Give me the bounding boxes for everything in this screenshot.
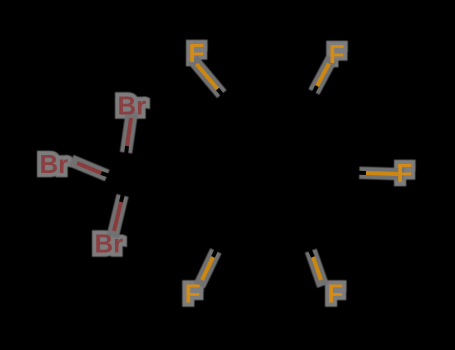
halo casing of bond C-F2 <box>317 64 329 87</box>
bond C-Br2 colored half <box>77 163 101 173</box>
svg-text:F: F <box>189 40 205 68</box>
bond C-Br2 black half (skeleton side) <box>101 173 125 181</box>
bond C-F3 black half (skeleton side) <box>340 172 366 173</box>
halo casing of bond C-Br3 <box>114 202 121 232</box>
bond C-Br1 black half (skeleton side) <box>124 146 127 175</box>
svg-text:Br: Br <box>118 92 147 120</box>
bond C-Br3 colored half <box>114 202 121 231</box>
bond C-F2 colored half <box>317 64 329 87</box>
bond C-Br1 colored half <box>127 118 131 146</box>
svg-text:F: F <box>329 41 345 69</box>
svg-text:Br: Br <box>95 231 124 259</box>
bond C-F1 colored half <box>197 64 218 89</box>
bond C-F4 colored half <box>313 257 321 280</box>
svg-text:F: F <box>328 281 344 309</box>
bond C-F5 colored half <box>202 257 213 280</box>
svg-text:F: F <box>185 281 201 309</box>
bond C-F4 black half (skeleton side) <box>303 235 313 257</box>
halo casing of bond C-F5 <box>202 257 213 281</box>
halo casing of bond C-Br2 <box>77 163 102 173</box>
svg-text:Br: Br <box>40 151 69 179</box>
halo casing of bond C-F3 <box>366 173 399 174</box>
bond C-F2 black half (skeleton side) <box>305 86 317 109</box>
bond C-Br3 black half (skeleton side) <box>121 173 128 202</box>
bond C-F1 black half (skeleton side) <box>218 89 239 114</box>
halo casing of bond C-F1 <box>197 64 218 89</box>
svg-text:F: F <box>397 160 413 188</box>
halo casing of bond C-F4 <box>313 257 321 281</box>
halo casing of bond C-Br1 <box>127 118 131 147</box>
bond C-F5 black half (skeleton side) <box>213 235 223 257</box>
bond C-F3 colored half <box>366 173 398 174</box>
